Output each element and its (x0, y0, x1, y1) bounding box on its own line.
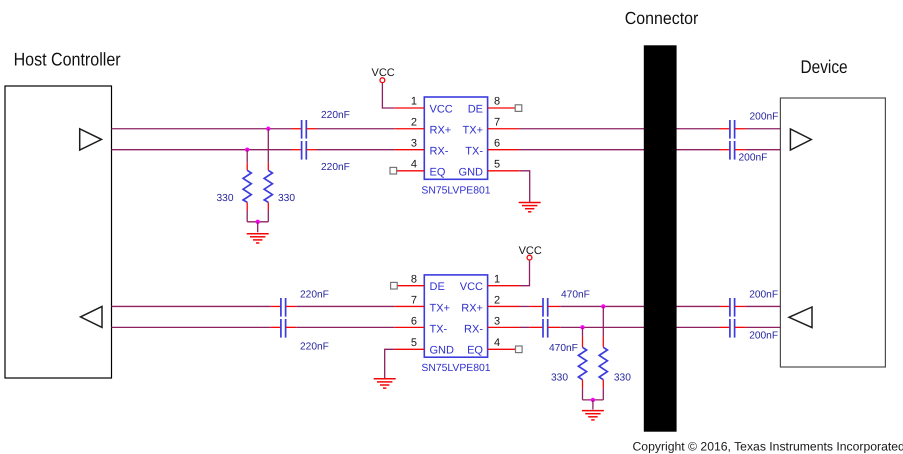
svg-text:RX+: RX+ (430, 124, 452, 136)
svg-text:220nF: 220nF (300, 342, 329, 353)
ground (U1 pin 5) (519, 203, 541, 212)
wire U1 pin 7 to connector and C3 (519, 128, 720, 130)
node junction at resistor common (dot) (256, 220, 260, 224)
svg-text:200nF: 200nF (749, 290, 778, 301)
U2 pin 8 DE (391, 273, 445, 293)
wire C3 to device (746, 128, 781, 130)
U1 pin 5 GND (459, 159, 520, 179)
wire junction TX- down to R1 (246, 150, 248, 163)
host buffer triangle (top, pointing right) (80, 129, 102, 150)
capacitor C4 200nF (bottom line) (720, 141, 746, 160)
capacitor C1 220nF (top line) (292, 120, 317, 139)
U1 pin 8 DE (468, 96, 522, 116)
wire VCC to U1 pin 1 (382, 83, 394, 108)
connector bar (644, 45, 677, 431)
wire U1 pin 6 to connector and C4 (519, 149, 720, 151)
svg-text:VCC: VCC (460, 281, 483, 293)
svg-text:3: 3 (494, 316, 500, 328)
svg-text:5: 5 (411, 337, 417, 349)
wire C2 to U1 pin 3 (317, 149, 395, 151)
svg-text:2: 2 (411, 117, 417, 129)
svg-text:VCC: VCC (430, 103, 453, 115)
U2 pin 4 EQ (467, 337, 522, 357)
capacitor C2 220nF (bottom line) (292, 141, 317, 160)
node junction on TX+ (dot) (266, 127, 270, 131)
U1 pin 6 TX- (465, 138, 519, 158)
wire U2 pin 3 to C8 (520, 326, 530, 328)
svg-text:TX-: TX- (430, 323, 448, 335)
wire C6 to U2 pin 6 (296, 326, 394, 328)
capacitor C9 200nF (top line) (720, 298, 746, 317)
wire to ground (592, 400, 594, 410)
wire C8 to connector and C10 (560, 326, 719, 328)
node junction on TX- (dot) (245, 148, 249, 152)
wire host TX+ to C1 (y=129) (112, 128, 292, 130)
svg-text:470nF: 470nF (549, 343, 578, 354)
IC U2 SN75LVPE801 body (424, 275, 487, 357)
svg-text:220nF: 220nF (300, 289, 329, 300)
svg-text:Host Controller: Host Controller (14, 48, 121, 69)
device buffer triangle (top, pointing right) (790, 129, 811, 150)
wire to ground (257, 222, 259, 233)
svg-text:220nF: 220nF (321, 162, 350, 173)
svg-text:RX-: RX- (464, 323, 483, 335)
svg-text:Connector: Connector (625, 8, 699, 28)
U2 pin 2 RX+ (461, 295, 519, 315)
U1 pin 1 VCC (394, 96, 452, 116)
svg-text:DE: DE (468, 103, 483, 115)
wire U2 pin 5 to ground (385, 349, 395, 378)
svg-text:200nF: 200nF (750, 111, 779, 122)
wire junction RX+ down to R4 (602, 306, 604, 336)
wire joining R3 R4 bottoms (583, 399, 604, 401)
svg-text:TX-: TX- (465, 145, 483, 157)
host buffer triangle (bottom, pointing left) (81, 306, 103, 327)
wire C5 to U2 pin 7 (296, 305, 394, 307)
wire C10 to device (746, 326, 781, 328)
U1 pin 3 RX- (394, 138, 448, 158)
svg-text:SN75LVPE801: SN75LVPE801 (421, 363, 490, 374)
svg-text:GND: GND (459, 166, 484, 178)
wire junction TX+ down to R2 (267, 129, 269, 163)
svg-text:5: 5 (494, 159, 500, 171)
wire joining R1 R2 bottoms (247, 221, 268, 223)
wire C7 to connector and C9 (560, 305, 719, 307)
ground (below R3 R4) (582, 411, 604, 420)
capacitor C6 220nF (bottom line) (271, 319, 297, 338)
svg-text:200nF: 200nF (739, 152, 768, 163)
U2 pin 5 GND (395, 337, 454, 357)
svg-text:EQ: EQ (467, 345, 483, 357)
node junction on RX+ (dot) (601, 304, 605, 308)
svg-text:330: 330 (217, 193, 234, 204)
U2 pin 6 TX- (394, 316, 447, 336)
wire host TX- to C2 (y=150) (112, 149, 292, 151)
U1 pin 2 RX+ (394, 117, 451, 137)
svg-text:8: 8 (411, 273, 417, 285)
svg-text:TX+: TX+ (463, 124, 483, 136)
capacitor C3 200nF (top line) (720, 120, 746, 139)
U2 pin 7 TX+ (394, 295, 450, 315)
svg-text:RX+: RX+ (461, 302, 483, 314)
svg-text:1: 1 (411, 96, 417, 108)
svg-text:330: 330 (614, 373, 631, 384)
U1 pin 7 TX+ (463, 117, 519, 137)
svg-text:Copyright © 2016, Texas Instru: Copyright © 2016, Texas Instruments Inco… (633, 440, 903, 454)
svg-text:1: 1 (494, 273, 500, 285)
wire U1 pin 5 to ground (520, 171, 530, 202)
host controller box (5, 86, 112, 378)
capacitor C7 470nF (top line) (529, 298, 560, 317)
IC U1 SN75LVPE801 body (424, 97, 487, 179)
svg-text:3: 3 (411, 138, 417, 150)
capacitor C8 470nF (bottom line) (529, 319, 560, 338)
U2 pin 1 VCC (460, 273, 520, 293)
svg-text:6: 6 (494, 138, 500, 150)
U1 pin 4 EQ (390, 159, 446, 179)
svg-text:DE: DE (430, 281, 445, 293)
svg-text:220nF: 220nF (321, 110, 350, 121)
wire C1 to U1 pin 2 (317, 128, 395, 130)
wire C4 to device (746, 149, 781, 151)
svg-text:330: 330 (278, 193, 295, 204)
capacitor C5 220nF (top line) (271, 298, 297, 317)
svg-text:6: 6 (411, 316, 417, 328)
wire VCC to U2 pin 1 (520, 260, 530, 286)
node junction at resistor common (dot) (591, 398, 595, 402)
resistor R4 330 (right) (599, 337, 607, 400)
svg-text:7: 7 (411, 295, 417, 307)
resistor R1 330 (left) (243, 163, 251, 222)
capacitor C10 200nF (bottom line) (720, 319, 746, 338)
resistor R2 330 (right) (264, 163, 272, 222)
svg-text:200nF: 200nF (749, 331, 778, 342)
power VCC symbol (top) (372, 67, 395, 83)
wire junction RX- down to R3 (582, 327, 584, 336)
svg-text:330: 330 (551, 373, 568, 384)
U2 pin 3 RX- (464, 316, 519, 336)
ground (below R1 R2) (247, 234, 269, 243)
resistor R3 330 (left) (578, 337, 586, 400)
svg-text:GND: GND (430, 345, 455, 357)
svg-text:4: 4 (411, 159, 417, 171)
svg-text:2: 2 (494, 295, 500, 307)
wire U2 pin 2 to C7 (520, 305, 530, 307)
wire host RX- to C6 (y=328) (112, 326, 271, 328)
svg-text:RX-: RX- (430, 145, 449, 157)
wire C9 to device (746, 305, 781, 307)
ground (U2 pin 5) (374, 379, 396, 388)
svg-text:8: 8 (494, 96, 500, 108)
svg-text:VCC: VCC (372, 67, 395, 79)
device box (780, 98, 885, 367)
wire host RX+ to C5 (y=307) (112, 305, 271, 307)
node junction on RX- (dot) (580, 325, 584, 329)
svg-text:Device: Device (801, 56, 848, 77)
device buffer triangle (bottom, pointing left) (789, 307, 812, 328)
svg-text:TX+: TX+ (430, 302, 450, 314)
power VCC symbol (bottom) (519, 245, 542, 260)
svg-text:SN75LVPE801: SN75LVPE801 (421, 186, 490, 197)
svg-text:470nF: 470nF (561, 289, 590, 300)
svg-text:EQ: EQ (430, 166, 446, 178)
svg-text:4: 4 (494, 337, 500, 349)
svg-text:7: 7 (494, 117, 500, 129)
